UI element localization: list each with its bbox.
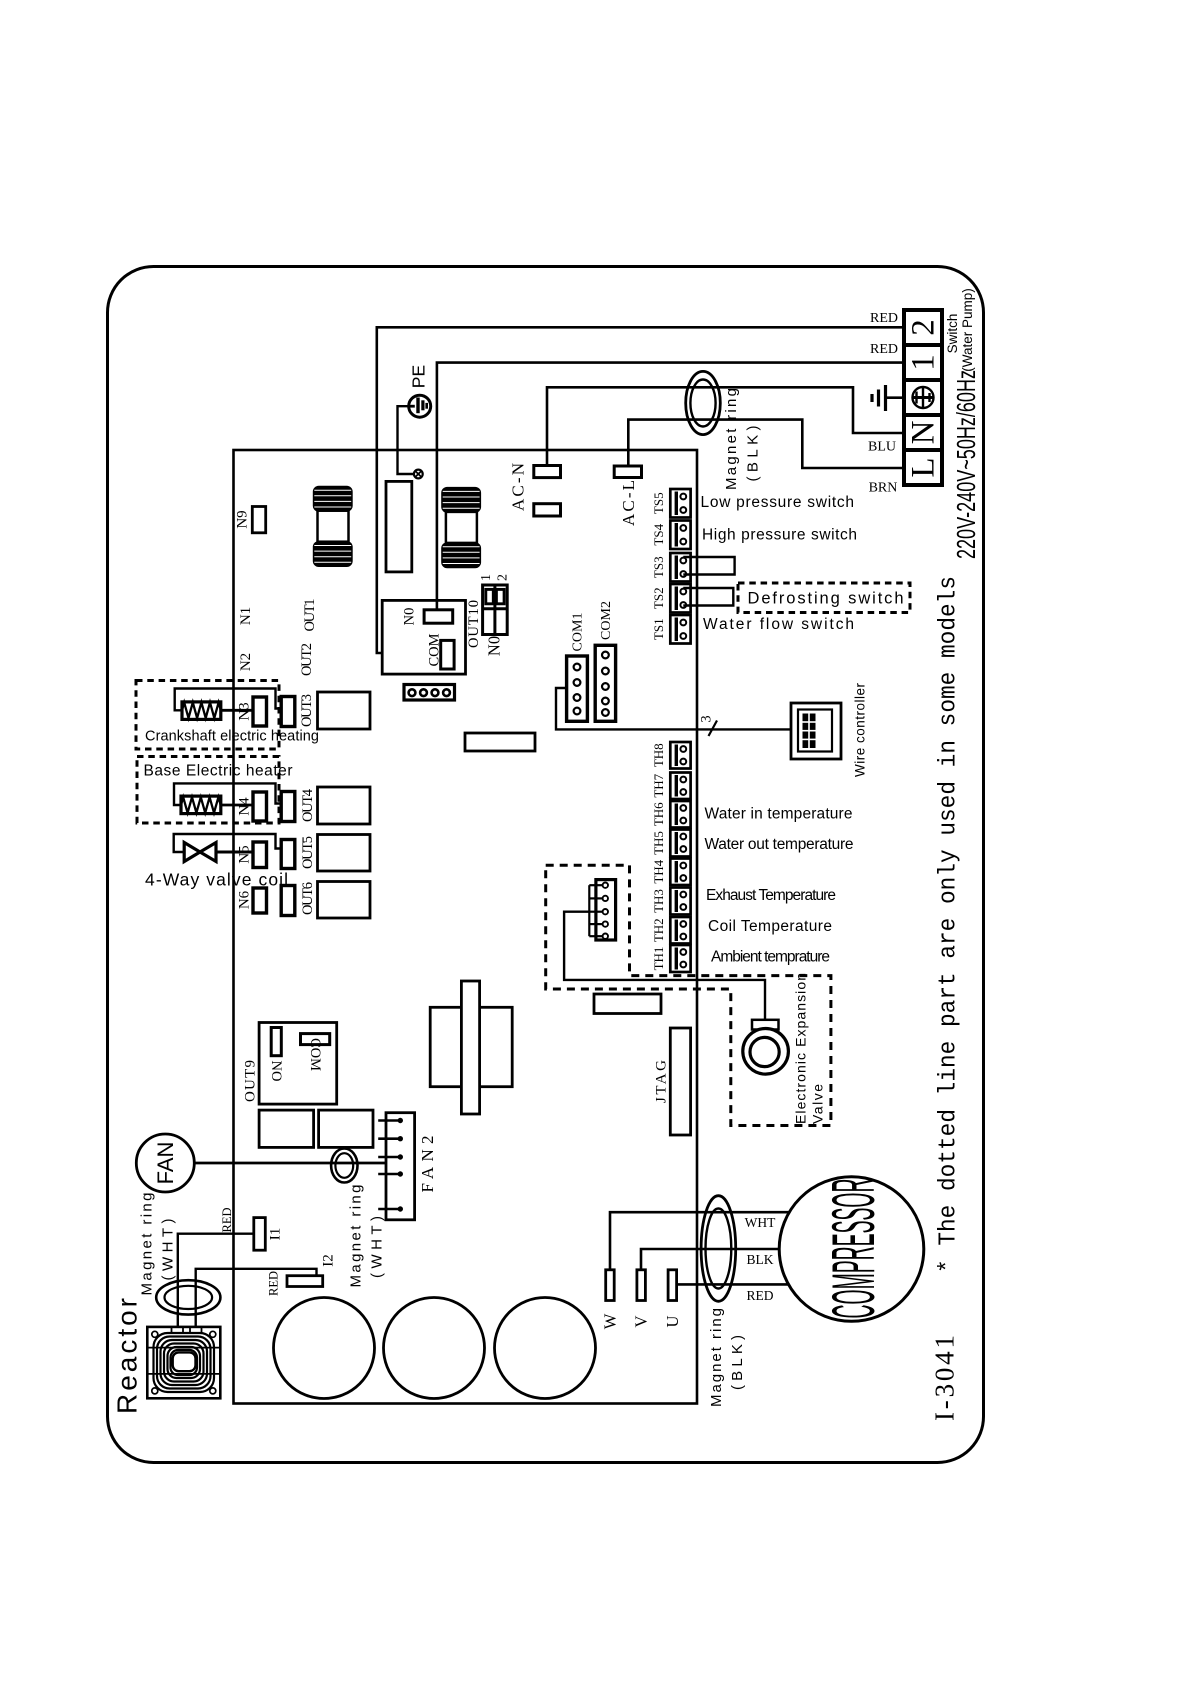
relay contact N3 [253,697,267,726]
connector TS1 [670,615,690,644]
svg-text:L: L [906,457,942,477]
component block A [259,1110,314,1147]
connector AC-N [534,466,561,517]
svg-text:N0: N0 [402,608,418,626]
relay OUT3 [318,692,371,729]
wire controller [791,703,841,759]
relay OUT6 [318,882,371,919]
svg-text:BLU: BLU [868,440,896,455]
current sensor I2 [287,1276,323,1287]
reactor [147,1327,220,1398]
svg-text:TH2: TH2 [651,918,666,942]
slash 3-conductor mark [709,721,718,737]
svg-text:High pressure switch: High pressure switch [702,527,857,544]
current sensor I1 [254,1218,265,1251]
svg-text:Base Electric heater: Base Electric heater [144,763,293,780]
svg-text:Water in temperature: Water in temperature [705,806,853,823]
connector TS2 [670,584,690,613]
connector JTAG [670,1028,690,1135]
svg-text:Exhaust Temperature: Exhaust Temperature [706,887,836,904]
resistor crankshaft heater [182,702,253,720]
svg-text:2: 2 [496,574,511,581]
wire bus row5 [174,834,282,852]
svg-text:TH8: TH8 [651,743,666,767]
wire BRN terminal L to AC-L [628,420,904,468]
dashed box crankshaft electric heating [136,681,279,750]
svg-text:OUT9: OUT9 [243,1060,259,1102]
wire RED terminal1 to relay NO [437,363,904,610]
wire RED to compressor [677,1283,789,1286]
svg-text:OUT3: OUT3 [299,694,315,727]
capacitor C3 [495,1298,596,1399]
svg-text:V: V [632,1315,651,1327]
svg-text:Magnet ring: Magnet ring [723,388,740,490]
terminal W [606,1270,615,1301]
svg-text:OUT1: OUT1 [302,599,318,632]
svg-text:2: 2 [906,319,942,336]
wire I1 to reactor [178,1234,254,1327]
capacitor C2 [384,1298,485,1399]
wire PE to board [398,406,415,474]
svg-text:RED: RED [870,342,898,357]
wire I2 to reactor [196,1269,317,1327]
svg-text:Magnet ring: Magnet ring [708,1308,725,1407]
PCB main board outline [234,450,698,1404]
svg-text:N2: N2 [238,653,254,671]
svg-text:Magnet ring: Magnet ring [139,1193,156,1296]
svg-text:TH7: TH7 [651,773,666,797]
svg-text:TH4: TH4 [651,859,666,883]
relay OUT5 [318,835,371,872]
connector TS5 [670,489,690,518]
transformer coil T1 [313,486,353,567]
connector COM1 [567,656,588,721]
connector TH5 [670,830,690,857]
svg-text:Water out temperature: Water out temperature [705,836,854,853]
connector TH7 [670,773,690,800]
svg-text:OUT10: OUT10 [466,600,482,648]
svg-text:RED: RED [747,1288,774,1303]
svg-text:COMPRESSOR: COMPRESSOR [820,1179,887,1319]
wire BLU terminal N to AC-N [547,387,904,465]
component block B [319,1110,373,1147]
svg-text:NO: NO [268,1061,284,1082]
svg-text:Coil Temperature: Coil Temperature [708,918,832,935]
svg-text:(Water Pump): (Water Pump) [960,288,975,372]
svg-text:N4: N4 [237,797,253,816]
relay K1 [386,481,412,572]
IPM heatsink block [430,981,512,1114]
svg-text:* The dotted line part are onl: * The dotted line part are only used in … [936,576,963,1273]
connector COM2 [595,645,615,721]
wire sensor connector to EEV [564,912,765,1020]
4-pin connector [404,685,455,701]
svg-text:Switch: Switch [945,314,960,354]
wire BLK to compressor [641,1249,781,1270]
dashed region optional sensors + EEV [546,865,831,1125]
svg-text:TS1: TS1 [651,618,666,640]
svg-text:Wire controller: Wire controller [853,683,868,778]
svg-text:RED: RED [267,1271,281,1296]
svg-text:COM: COM [307,1038,323,1071]
FAN motor [136,1134,194,1192]
svg-text:RED: RED [220,1208,234,1233]
connector TH2 [670,917,690,944]
svg-text:N9: N9 [235,510,251,528]
svg-text:TS3: TS3 [651,556,666,578]
wire bus row4 [174,783,281,805]
svg-text:U: U [663,1315,682,1327]
svg-text:WHT: WHT [745,1215,776,1230]
svg-text:TH6: TH6 [651,802,666,826]
svg-text:Valve: Valve [809,1084,825,1124]
svg-text:220V-240V~50Hz/60Hz: 220V-240V~50Hz/60Hz [951,370,981,559]
dashed box defrosting switch [738,583,910,613]
connector TS3 [670,553,690,582]
terminal U [668,1270,677,1301]
svg-text:TH1: TH1 [651,947,666,971]
svg-text:Magnet ring: Magnet ring [348,1185,365,1288]
svg-text:Water flow switch: Water flow switch [703,616,854,633]
jumper block OUT10 [483,585,508,635]
relay contact mid row6 [281,886,295,916]
svg-text:TS4: TS4 [651,523,666,545]
svg-text:TS2: TS2 [651,587,666,609]
connector TH8 [670,742,690,769]
terminal ground symbol [912,386,934,409]
svg-text:N1: N1 [238,607,254,625]
svg-text:N6: N6 [237,890,253,909]
svg-text:AC-L: AC-L [619,480,638,526]
component block mid [594,994,661,1014]
svg-text:N0: N0 [485,636,504,656]
dashed box base electric heater [137,757,279,824]
svg-text:FAN: FAN [153,1142,178,1185]
terminal V [637,1270,646,1301]
electronic expansion valve [743,1020,789,1074]
wire COM1 to wire controller [556,688,791,729]
solder point [414,470,423,479]
magnet ring (BLK) toroid top [686,371,721,434]
5-pin sensor connector [589,880,615,940]
svg-text:3: 3 [699,715,715,722]
svg-text:COM1: COM1 [571,613,586,652]
magnet ring toroid (FAN wire) [331,1149,357,1183]
terminal block (L N gnd 1 2) [904,310,942,485]
svg-text:N: N [906,420,942,444]
resistor base heater [181,796,253,814]
svg-text:TH3: TH3 [651,889,666,913]
connector TH4 [670,859,690,886]
svg-text:PE: PE [409,365,429,388]
connector AC-L [614,466,641,478]
relay block NO/COM [382,600,465,674]
relay contact N5 [253,842,267,868]
svg-text:RED: RED [870,311,898,326]
4-way valve symbol [184,843,253,862]
svg-text:Electronic Expansion: Electronic Expansion [792,973,808,1124]
svg-text:N5: N5 [237,845,253,863]
wire TS2 loop [683,588,733,606]
connector FAN2 [378,1113,414,1220]
wire RED terminal2 to relay COM bus [377,327,904,653]
relay contact mid row4 [281,792,295,822]
relay OUT9 [259,1023,337,1105]
svg-text:I-3041: I-3041 [930,1335,960,1421]
relay contact N6 [253,888,267,913]
svg-text:COM2: COM2 [599,601,614,640]
wire FAN to FAN2 [194,1162,386,1165]
svg-text:Ambient temprature: Ambient temprature [711,949,830,966]
svg-text:OUT2: OUT2 [299,643,315,676]
svg-text:N3: N3 [237,702,253,720]
svg-text:OUT6: OUT6 [300,882,316,915]
svg-text:COM: COM [427,633,443,666]
compressor [779,1177,924,1322]
svg-text:1: 1 [906,354,942,371]
wire bus row3 [175,689,282,711]
magnet ring toroid (reactor) [156,1280,220,1314]
svg-text:1: 1 [479,574,494,581]
svg-text:BLK: BLK [747,1252,774,1267]
relay OUT4 [318,787,371,824]
relay contact N4 [253,792,267,821]
wire TS3 loop [683,557,734,575]
capacitor C1 [274,1298,375,1399]
svg-text:OUT5: OUT5 [300,836,316,869]
svg-text:OUT4: OUT4 [300,788,316,822]
connector N9 [252,507,265,533]
connector TS4 [670,521,690,550]
transformer coil T2 [441,487,481,568]
connector TH3 [670,888,690,915]
svg-text:TH5: TH5 [651,831,666,855]
svg-text:I2: I2 [321,1254,337,1267]
svg-text:TS5: TS5 [651,492,666,514]
magnet ring toroid (compressor) [701,1196,736,1302]
relay contact mid row5 [281,840,295,869]
wire WHT to compressor [610,1212,790,1270]
PE terminal [409,395,431,417]
component block [465,733,535,751]
svg-text:Low pressure switch: Low pressure switch [701,494,855,511]
connector TH1 [670,945,690,972]
connector TH6 [670,801,690,828]
svg-text:I1: I1 [268,1228,284,1241]
svg-text:AC-N: AC-N [509,463,528,511]
svg-text:BRN: BRN [869,481,898,496]
earth ground symbol at terminal [872,385,904,411]
relay contact mid row3 [281,697,295,727]
svg-text:W: W [601,1313,620,1329]
svg-text:Crankshaft electric heating: Crankshaft electric heating [145,729,319,745]
